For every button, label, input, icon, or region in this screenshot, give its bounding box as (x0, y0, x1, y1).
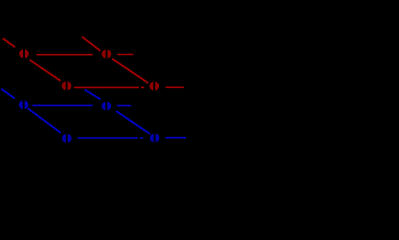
wire: blue mini dash after row2 line (140, 137, 143, 139)
wire: blue horizontal dash right of B4 (166, 137, 187, 139)
node R2 (102, 48, 112, 60)
wire: blue diagonal B2 to B4 (116, 111, 150, 134)
wire: red horizontal row2 R3 to R4 (74, 86, 139, 88)
wire: blue diagonal stub above node B1 (1, 89, 15, 99)
node B2 (102, 100, 112, 112)
node R3 (62, 80, 72, 92)
wire: red horizontal dash right of R4 (166, 86, 184, 88)
wire: blue horizontal row2 B3 to B4 (78, 137, 139, 139)
node B4 (150, 132, 160, 144)
wire: red mini dash after row2 line (141, 86, 144, 88)
wire: red diagonal R1 to R3 (30, 60, 61, 81)
wire: blue diagonal stub above B2 (85, 90, 101, 100)
wire: red diagonal stub above R2 (82, 37, 100, 51)
wire: blue horizontal dash right of B2 (117, 105, 131, 107)
wire: red diagonal stub above node R1 (3, 38, 15, 47)
wire: blue horizontal row1 B1 to B2 (32, 104, 93, 106)
wire: blue diagonal B1 to B3 (28, 108, 61, 132)
wire: red horizontal dash right of R2 (117, 54, 133, 56)
node B3 (62, 133, 72, 145)
wire: red diagonal R2 to R4 (112, 59, 148, 83)
node B1 (19, 99, 29, 111)
node R4 (150, 80, 160, 92)
node R1 (19, 48, 29, 60)
wire: red horizontal row1 R1 to R2 (37, 54, 93, 56)
